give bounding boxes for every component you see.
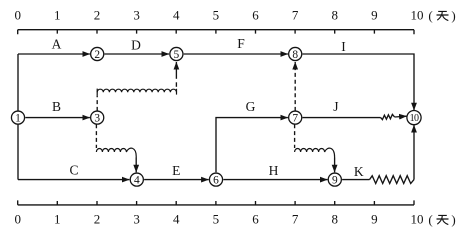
svg-text:3: 3 bbox=[94, 112, 100, 124]
svg-text:8: 8 bbox=[331, 211, 338, 226]
svg-text:(: ( bbox=[428, 8, 432, 23]
svg-text:1: 1 bbox=[54, 7, 61, 22]
svg-text:7: 7 bbox=[292, 112, 298, 124]
svg-text:1: 1 bbox=[54, 211, 61, 226]
svg-text:): ) bbox=[451, 8, 455, 23]
svg-text:H: H bbox=[269, 163, 279, 178]
svg-text:7: 7 bbox=[292, 211, 299, 226]
svg-text:B: B bbox=[52, 99, 61, 114]
svg-text:5: 5 bbox=[213, 211, 220, 226]
svg-text:A: A bbox=[52, 37, 62, 52]
svg-text:9: 9 bbox=[371, 7, 378, 22]
svg-text:J: J bbox=[333, 99, 338, 114]
svg-text:2: 2 bbox=[94, 49, 100, 61]
svg-text:0: 0 bbox=[14, 7, 21, 22]
svg-text:10: 10 bbox=[411, 211, 424, 226]
svg-text:E: E bbox=[172, 163, 180, 178]
svg-text:3: 3 bbox=[133, 7, 140, 22]
svg-text:4: 4 bbox=[134, 174, 140, 186]
svg-text:4: 4 bbox=[173, 211, 180, 226]
svg-text:D: D bbox=[131, 37, 141, 52]
svg-text:3: 3 bbox=[133, 211, 140, 226]
svg-text:2: 2 bbox=[94, 7, 101, 22]
svg-text:5: 5 bbox=[174, 49, 180, 61]
svg-text:5: 5 bbox=[213, 7, 220, 22]
svg-text:K: K bbox=[354, 164, 364, 179]
svg-text:9: 9 bbox=[332, 174, 338, 186]
svg-text:6: 6 bbox=[252, 211, 259, 226]
svg-text:6: 6 bbox=[213, 174, 219, 186]
svg-text:8: 8 bbox=[292, 49, 298, 61]
svg-text:): ) bbox=[451, 212, 455, 227]
svg-text:7: 7 bbox=[292, 7, 299, 22]
svg-text:I: I bbox=[341, 39, 346, 54]
svg-text:8: 8 bbox=[331, 7, 338, 22]
svg-text:2: 2 bbox=[94, 211, 101, 226]
svg-text:10: 10 bbox=[410, 113, 419, 124]
svg-text:(: ( bbox=[428, 212, 432, 227]
svg-text:9: 9 bbox=[371, 211, 378, 226]
svg-text:6: 6 bbox=[252, 7, 259, 22]
svg-text:1: 1 bbox=[15, 112, 21, 124]
svg-text:F: F bbox=[237, 36, 245, 51]
svg-text:0: 0 bbox=[14, 211, 21, 226]
svg-text:C: C bbox=[69, 162, 78, 177]
svg-text:4: 4 bbox=[173, 7, 180, 22]
svg-text:G: G bbox=[246, 99, 256, 114]
svg-text:10: 10 bbox=[411, 7, 424, 22]
